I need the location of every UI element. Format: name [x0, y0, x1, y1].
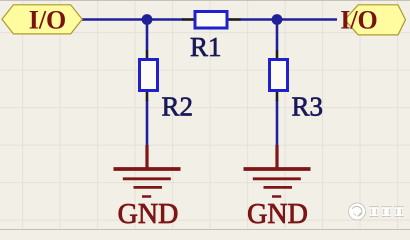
svg-text:R3: R3 [292, 91, 324, 121]
svg-text:GND: GND [247, 199, 308, 230]
svg-text:I/O: I/O [29, 6, 67, 35]
ground GND1 [114, 145, 181, 230]
wire [146, 100, 149, 147]
resistor R3 [270, 50, 324, 121]
ground GND2 [244, 145, 311, 230]
wire [146, 20, 149, 51]
watermark logo [349, 203, 366, 220]
watermark text [370, 207, 404, 218]
svg-text:GND: GND [118, 199, 179, 230]
svg-text:R2: R2 [162, 91, 194, 121]
resistor R1 [182, 12, 241, 63]
junction node B [272, 14, 283, 25]
resistor R2 [140, 50, 194, 121]
port I/O left [2, 5, 82, 35]
wire [147, 18, 183, 21]
wire [276, 20, 279, 51]
wire [82, 18, 147, 21]
svg-text:I/O: I/O [340, 6, 378, 35]
port I/O right [340, 5, 405, 35]
wire [276, 100, 279, 147]
junction node A [142, 14, 153, 25]
wire [240, 18, 277, 21]
wire [277, 18, 337, 21]
svg-text:R1: R1 [190, 32, 222, 62]
